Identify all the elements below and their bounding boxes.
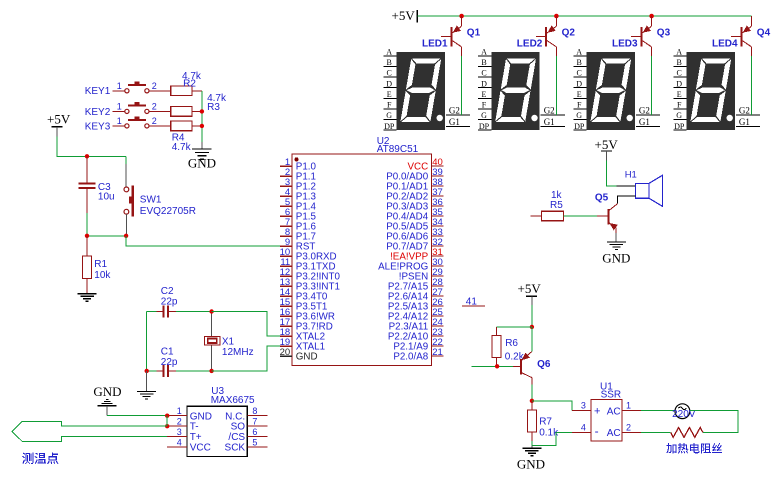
svg-text:G2: G2	[739, 105, 750, 115]
svg-text:+5V: +5V	[392, 8, 416, 23]
svg-text:G1: G1	[639, 117, 650, 127]
ground GND (Q5)	[602, 242, 630, 265]
svg-text:F: F	[577, 101, 582, 110]
wire +5V to speaker	[606, 160, 635, 186]
capacitor C1	[147, 346, 212, 376]
wire +5V left down	[57, 136, 126, 156]
capacitor C3	[79, 156, 115, 236]
svg-text:GND: GND	[296, 352, 318, 363]
svg-text:H1: H1	[625, 170, 637, 181]
svg-text:LED4: LED4	[712, 38, 738, 49]
wire C3 bottom to SW1 bottom	[87, 235, 126, 237]
wire R7 bottom to SSR pin4	[532, 432, 572, 445]
svg-text:R7: R7	[539, 417, 552, 428]
svg-text:2: 2	[152, 101, 157, 111]
svg-text:B: B	[387, 58, 392, 67]
resistor R7	[527, 401, 559, 441]
switch KEY1	[85, 81, 171, 97]
svg-text:G2: G2	[639, 105, 650, 115]
svg-text:5: 5	[252, 438, 257, 448]
op-amp U2 microcontroller AT89C51	[280, 136, 444, 365]
junction key row2	[200, 109, 204, 113]
svg-text:2: 2	[152, 116, 157, 126]
svg-text:+5V: +5V	[518, 281, 542, 296]
svg-text:B: B	[577, 58, 582, 67]
resistor R5	[531, 190, 564, 221]
svg-text:4: 4	[177, 438, 182, 448]
svg-text:DP: DP	[384, 122, 395, 131]
svg-text:1: 1	[626, 401, 631, 411]
svg-text:D: D	[386, 79, 392, 88]
wire Q6 emitter down	[531, 385, 533, 401]
svg-text:3: 3	[177, 427, 182, 437]
svg-text:C2: C2	[161, 286, 174, 297]
svg-text:D: D	[576, 79, 582, 88]
wire ground to U3 pin1	[107, 415, 167, 417]
svg-text:LED3: LED3	[612, 38, 638, 49]
svg-text:X1: X1	[222, 336, 235, 347]
svg-text:1: 1	[177, 406, 182, 416]
wire SSR pin1 to AC source	[641, 409, 675, 411]
svg-text:R3: R3	[207, 102, 220, 113]
svg-text:+: +	[594, 406, 600, 418]
power +5V (display rail)	[392, 8, 418, 23]
power +5V (left)	[47, 111, 71, 136]
svg-text:A: A	[676, 48, 682, 57]
crystal X1	[205, 312, 254, 371]
resistor R6	[492, 327, 525, 366]
wire XTAL1	[212, 346, 281, 371]
transistor Q6	[513, 352, 551, 385]
svg-text:DP: DP	[574, 122, 585, 131]
AC source 220V	[672, 404, 696, 420]
svg-text:/CS: /CS	[228, 432, 245, 443]
power +5V (Q6)	[518, 281, 542, 305]
junction U3 pin1	[165, 414, 169, 418]
svg-text:G: G	[481, 111, 487, 120]
junction R6 top	[530, 325, 534, 329]
wire RST	[126, 236, 280, 246]
svg-text:G2: G2	[449, 105, 460, 115]
svg-text:8: 8	[252, 406, 257, 416]
junction key row3	[200, 124, 204, 128]
svg-text:KEY1: KEY1	[85, 86, 111, 97]
svg-text:A: A	[481, 48, 487, 57]
svg-text:EVQ22705R: EVQ22705R	[140, 206, 196, 217]
wire C2-C1 left	[146, 312, 148, 371]
svg-text:E: E	[677, 90, 682, 99]
svg-text:R1: R1	[94, 259, 107, 270]
7-segment display LED4	[673, 38, 760, 130]
svg-text:F: F	[677, 101, 682, 110]
switch KEY2	[85, 101, 171, 117]
svg-text:D: D	[676, 79, 682, 88]
ground GND (R7)	[517, 445, 545, 471]
svg-text:A: A	[576, 48, 582, 57]
wire R6 branch	[497, 326, 532, 328]
svg-text:R5: R5	[550, 200, 563, 211]
svg-text:G1: G1	[449, 117, 460, 127]
svg-text:AT89C51: AT89C51	[377, 144, 419, 155]
wire +5V down to Q6	[531, 305, 533, 327]
svg-text:4: 4	[581, 423, 586, 433]
switch SW1	[124, 156, 196, 236]
svg-text:22p: 22p	[161, 357, 178, 368]
ground GND (U3)	[93, 384, 121, 416]
wire Q6 base	[472, 365, 514, 367]
svg-text:SW1: SW1	[140, 194, 162, 205]
transistor Q3	[631, 14, 670, 56]
svg-text:+5V: +5V	[595, 137, 619, 152]
svg-text:2: 2	[177, 417, 182, 427]
wire Q4 collector to LED4 G2	[751, 56, 753, 115]
transistor Q2	[536, 14, 575, 56]
svg-text:21: 21	[432, 347, 443, 358]
resistor R2	[171, 71, 202, 96]
svg-text:GND: GND	[93, 384, 121, 399]
wire Q1 collector to LED1 G2	[461, 56, 463, 115]
svg-text:1: 1	[117, 116, 122, 126]
svg-text:SO: SO	[231, 422, 246, 433]
svg-text:G: G	[676, 111, 682, 120]
svg-text:3: 3	[581, 401, 586, 411]
resistor heating element 加热电阻丝	[666, 428, 722, 454]
wire Q3 collector to LED3 G2	[651, 56, 653, 115]
capacitor C2	[147, 286, 212, 317]
junction R1 top	[85, 234, 89, 238]
junction C3 top	[85, 154, 89, 158]
wire keys to GND	[201, 91, 203, 149]
wire AC source to heater	[690, 410, 738, 432]
ground (R1)	[78, 294, 97, 302]
svg-text:Q1: Q1	[467, 28, 481, 39]
svg-text:10k: 10k	[94, 270, 111, 281]
svg-text:T+: T+	[190, 432, 202, 443]
svg-text:A: A	[386, 48, 392, 57]
op-amp U1 SSR	[572, 381, 641, 441]
svg-text:B: B	[677, 58, 682, 67]
svg-text:G: G	[386, 111, 392, 120]
svg-text:B: B	[481, 58, 486, 67]
transistor Q4	[731, 16, 770, 56]
svg-text:Q2: Q2	[562, 28, 576, 39]
transistor Q5	[595, 193, 618, 234]
svg-text:2: 2	[626, 423, 631, 433]
svg-text:D: D	[481, 79, 487, 88]
svg-text:1: 1	[117, 101, 122, 111]
svg-text:C: C	[677, 69, 682, 78]
switch KEY3	[85, 116, 171, 132]
svg-text:F: F	[482, 101, 487, 110]
wire +5V display rail	[417, 15, 751, 17]
svg-text:DP: DP	[674, 122, 685, 131]
svg-text:C: C	[481, 69, 486, 78]
svg-text:T-: T-	[190, 422, 199, 433]
junction X1 bottom	[209, 369, 213, 373]
transistor Q1	[441, 14, 480, 56]
svg-text:AC: AC	[607, 428, 621, 439]
svg-text:Q3: Q3	[657, 28, 671, 39]
svg-text:10u: 10u	[98, 192, 115, 203]
junction X1 top	[209, 309, 213, 313]
wire heater to SSR pin2	[641, 431, 670, 433]
svg-text:SCK: SCK	[225, 443, 246, 454]
svg-text:DP: DP	[479, 122, 490, 131]
svg-text:2: 2	[152, 81, 157, 91]
svg-text:R6: R6	[505, 338, 518, 349]
7-segment display LED2	[478, 38, 565, 130]
op-amp U3 thermocouple converter MAX6675	[167, 386, 267, 457]
svg-text:R2: R2	[183, 79, 196, 90]
wire Q2 collector to LED2 G2	[555, 56, 557, 115]
svg-text:GND: GND	[188, 156, 216, 171]
svg-text:KEY2: KEY2	[85, 107, 111, 118]
wire Q5 emitter to ground	[615, 233, 617, 242]
speaker H1	[625, 170, 663, 207]
svg-text:C1: C1	[161, 346, 174, 357]
svg-text:E: E	[577, 90, 582, 99]
svg-text:G2: G2	[544, 105, 555, 115]
svg-text:G1: G1	[544, 117, 555, 127]
svg-text:C: C	[387, 69, 392, 78]
resistor R4	[171, 121, 202, 153]
svg-text:KEY3: KEY3	[85, 121, 111, 132]
wire pin1-pin2 tie	[166, 416, 168, 427]
resistor R1	[83, 236, 112, 293]
wire Q6 emitter to SSR pin3	[532, 401, 572, 411]
svg-text:GND: GND	[517, 456, 545, 471]
node 41	[462, 296, 485, 307]
svg-text:20: 20	[280, 347, 291, 358]
junction SW1 bottom	[124, 234, 128, 238]
ground (C1)	[137, 371, 156, 399]
wire XTAL2	[212, 312, 281, 337]
svg-text:C: C	[577, 69, 582, 78]
svg-text:MAX6675: MAX6675	[211, 395, 255, 406]
svg-text:Q5: Q5	[595, 193, 609, 204]
svg-text:GND: GND	[190, 411, 212, 422]
svg-text:-: -	[595, 424, 599, 438]
svg-text:12MHz: 12MHz	[222, 347, 254, 358]
svg-text:Q4: Q4	[757, 28, 771, 39]
junction R7 top	[530, 399, 534, 403]
svg-text:E: E	[387, 90, 392, 99]
svg-text:22p: 22p	[161, 297, 178, 308]
svg-text:4.7k: 4.7k	[172, 142, 192, 153]
svg-text:Q6: Q6	[537, 359, 551, 370]
svg-text:N.C.: N.C.	[225, 411, 245, 422]
power +5V (buzzer)	[595, 137, 619, 161]
svg-text:LED1: LED1	[422, 38, 448, 49]
svg-text:+5V: +5V	[47, 111, 71, 126]
svg-text:7: 7	[252, 417, 257, 427]
junction R6 bottom	[495, 364, 499, 368]
thermocouple probe 测温点	[12, 422, 167, 465]
svg-text:AC: AC	[607, 406, 621, 417]
svg-text:LED2: LED2	[517, 38, 543, 49]
7-segment display LED3	[573, 38, 660, 130]
svg-text:SSR: SSR	[601, 389, 622, 400]
ground GND (keys)	[188, 149, 216, 171]
svg-text:E: E	[482, 90, 487, 99]
junction U3 pin2	[165, 424, 169, 428]
svg-text:1: 1	[117, 81, 122, 91]
wire Q6 collector from +5V	[531, 327, 533, 352]
svg-text:G1: G1	[739, 117, 750, 127]
svg-text:GND: GND	[602, 250, 630, 265]
svg-text:VCC: VCC	[190, 443, 211, 454]
svg-text:P2.0/A8: P2.0/A8	[393, 352, 428, 363]
svg-text:F: F	[387, 101, 392, 110]
wire speaker to Q5 collector	[617, 196, 635, 204]
7-segment display LED1	[383, 38, 470, 130]
svg-text:6: 6	[252, 427, 257, 437]
wire R5 to Q5 base	[564, 215, 598, 217]
junction C1 left	[145, 369, 149, 373]
resistor R3	[171, 93, 227, 116]
svg-text:G: G	[576, 111, 582, 120]
